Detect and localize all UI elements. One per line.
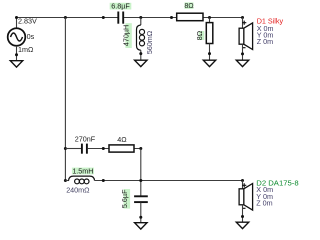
wire source to top bus bbox=[16, 17, 18, 28]
ground source bbox=[10, 61, 22, 67]
voltage source V1 bbox=[8, 28, 26, 46]
ground D2 bbox=[236, 222, 248, 228]
wire branch2 left stub bbox=[65, 180, 69, 182]
wire D1 top lead bbox=[242, 18, 244, 29]
wire right vertical bbox=[140, 149, 142, 196]
svg-text:5.6µF: 5.6µF bbox=[120, 189, 129, 208]
junction branch1 mid bbox=[102, 147, 105, 150]
inductor L2 1.5mH bbox=[69, 176, 95, 184]
junction branch2 mid bbox=[102, 179, 105, 182]
wire source bottom lead bbox=[16, 46, 18, 61]
inductor L1 470µH bbox=[137, 18, 145, 61]
ground D1 bbox=[236, 60, 248, 66]
resistor R1 8Ω horizontal bbox=[177, 13, 203, 21]
value 1.5mH bbox=[72, 167, 94, 176]
junction branch1 right bbox=[139, 147, 142, 150]
junction top bus at D1 bbox=[241, 16, 244, 19]
value 5.6µF bbox=[120, 189, 130, 209]
junction top bus at source bbox=[15, 16, 18, 19]
svg-text:1.5mH: 1.5mH bbox=[72, 167, 93, 176]
wire D2 top lead bbox=[242, 181, 244, 190]
wire D1 bottom lead bbox=[242, 44, 244, 60]
svg-text:270nF: 270nF bbox=[75, 134, 96, 143]
junction top bus at L1 bbox=[139, 16, 142, 19]
wire left vertical bbox=[64, 18, 66, 182]
junction R2 bottom bbox=[208, 52, 211, 55]
junction D1 bottom bbox=[241, 52, 244, 55]
junction branch2 at D2 bbox=[241, 179, 244, 182]
junction L1 bottom bbox=[139, 52, 142, 55]
svg-text:8Ω: 8Ω bbox=[195, 30, 204, 40]
svg-text:8Ω: 8Ω bbox=[184, 1, 194, 10]
speaker D2 bbox=[239, 183, 253, 210]
ground L1 bbox=[135, 60, 147, 66]
capacitor C2 270nF bbox=[82, 144, 87, 154]
svg-text:4Ω: 4Ω bbox=[117, 135, 127, 144]
ground R2 bbox=[203, 60, 215, 66]
junction branch2 left bbox=[64, 179, 67, 182]
ground C3 bbox=[135, 223, 147, 229]
svg-text:2.83V: 2.83V bbox=[18, 17, 37, 26]
wire D2 bottom lead bbox=[242, 205, 244, 222]
wire branch1 mid segment bbox=[88, 148, 141, 150]
value 8Ω (R1) bbox=[184, 1, 194, 10]
junction top bus mid bbox=[102, 16, 105, 19]
resistor R2 8Ω vertical bbox=[206, 18, 213, 61]
junction source bottom bbox=[15, 53, 18, 56]
svg-text:Z 0m: Z 0m bbox=[257, 37, 273, 46]
capacitor C3 5.6µF bbox=[134, 196, 148, 222]
speaker D1 bbox=[239, 21, 253, 50]
value 8Ω (R2) bbox=[195, 30, 204, 40]
svg-text:470µH: 470µH bbox=[122, 25, 131, 46]
value 6.8µF bbox=[110, 2, 132, 11]
wire branch1 left segment bbox=[65, 148, 81, 150]
svg-text:0s: 0s bbox=[27, 32, 35, 41]
junction branch1 left bbox=[64, 147, 67, 150]
svg-text:6.8µF: 6.8µF bbox=[111, 2, 130, 11]
svg-text:560mΩ: 560mΩ bbox=[145, 30, 154, 54]
value 470µH bbox=[122, 23, 132, 48]
junction D2 bottom bbox=[241, 215, 244, 218]
capacitor C1 6.8µF bbox=[118, 12, 123, 24]
junction top bus before R1 bbox=[170, 16, 173, 19]
junction top bus after R1 bbox=[208, 16, 211, 19]
junction top bus left branch bbox=[64, 16, 67, 19]
junction C3 bottom bbox=[139, 216, 142, 219]
svg-text:Z 0m: Z 0m bbox=[256, 198, 272, 207]
junction branch2 at C3 bbox=[139, 179, 142, 182]
wire branch2 to D2 bbox=[95, 180, 243, 182]
resistor R3 4Ω bbox=[109, 145, 134, 152]
svg-text:240mΩ: 240mΩ bbox=[66, 185, 90, 194]
svg-text:1mΩ: 1mΩ bbox=[18, 45, 34, 54]
wire top bus bbox=[17, 17, 243, 19]
